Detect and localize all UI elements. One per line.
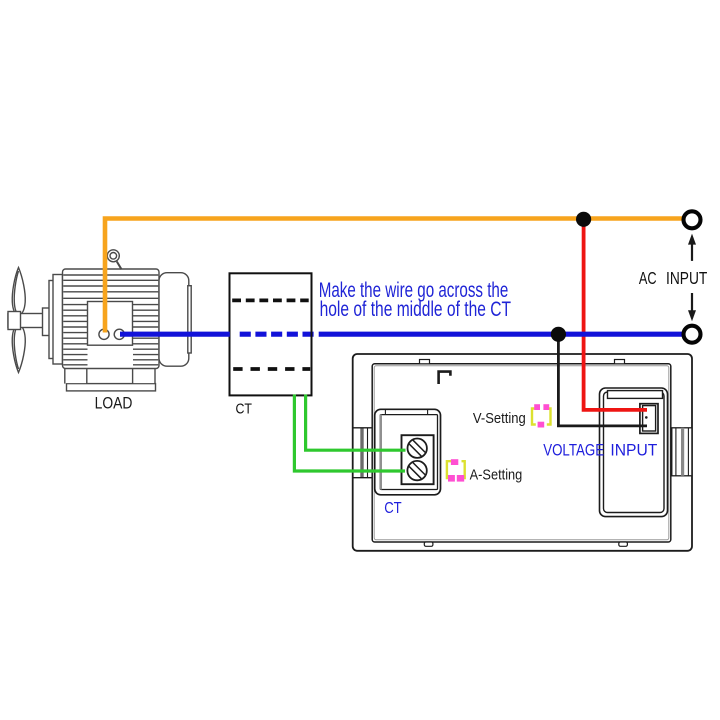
meter face plate	[372, 364, 671, 542]
motor leg left	[66, 369, 155, 384]
CT window dashed top	[232, 298, 309, 302]
wire: green CT lead 2	[294, 395, 405, 472]
shaft	[8, 314, 47, 328]
wire: red voltage sense	[584, 220, 647, 410]
motor right rib column	[133, 305, 158, 365]
bearing step 1	[43, 308, 51, 336]
corner mark	[439, 372, 451, 384]
top clip tabs	[420, 360, 430, 364]
screw top	[408, 439, 427, 458]
motor terminal L	[99, 329, 109, 339]
svg-text:AC: AC	[639, 268, 657, 288]
motor body	[63, 269, 160, 369]
svg-text:VOLTAGE: VOLTAGE	[543, 441, 604, 460]
wire: blue AC neutral, motor to CT box	[120, 332, 230, 337]
wire: green CT lead 1	[306, 395, 406, 451]
motor M1 (LOAD)	[8, 250, 191, 391]
motor terminal N	[114, 329, 124, 339]
CT sensor box	[230, 273, 312, 395]
wire: blue dashed through CT window	[240, 332, 314, 337]
arrow down	[691, 293, 693, 311]
svg-text:hole of the middle of the CT: hole of the middle of the CT	[320, 297, 511, 321]
svg-text:CT: CT	[236, 401, 253, 418]
eyelet strut	[117, 262, 122, 270]
svg-text:A-Setting: A-Setting	[470, 466, 523, 483]
screw bottom	[407, 461, 426, 480]
motor leg right	[132, 369, 134, 384]
AC input terminal top	[684, 211, 701, 228]
eyelet ring	[107, 250, 119, 262]
svg-text:CT: CT	[384, 500, 402, 517]
meter panel body	[353, 354, 692, 551]
right mounting tab	[672, 428, 692, 476]
svg-text:INPUT: INPUT	[666, 268, 708, 288]
arrow up	[691, 244, 693, 261]
screw box	[402, 435, 434, 484]
A-Setting button icon	[447, 459, 465, 481]
CT terminal block	[375, 409, 441, 495]
wire: black voltage sense	[558, 335, 647, 426]
wire: orange AC line from terminal to motor	[105, 219, 683, 333]
motor base plate	[67, 384, 156, 391]
motor end plate	[188, 286, 191, 353]
V-Setting button icon	[532, 404, 551, 427]
wire: blue AC neutral, CT box to terminal	[319, 332, 683, 337]
propeller blade bottom	[12, 325, 25, 373]
voltage connector	[640, 404, 658, 434]
front step 2	[49, 281, 54, 359]
motor top ribs	[63, 275, 158, 298]
junction dot on orange wire	[576, 212, 591, 227]
junction dot on blue wire	[551, 327, 566, 342]
motor end cap	[159, 273, 189, 367]
motor terminal box	[88, 302, 133, 346]
bottom clip tabs	[424, 542, 433, 546]
voltage input housing	[600, 388, 668, 517]
motor left rib column	[63, 305, 87, 365]
propeller blade top	[12, 268, 25, 316]
svg-text:V-Setting: V-Setting	[473, 410, 526, 427]
hub clamp	[8, 312, 21, 330]
svg-text:LOAD: LOAD	[95, 394, 133, 413]
CT window dashed bottom	[233, 367, 310, 371]
housing top bar	[608, 391, 663, 399]
front end bell	[53, 275, 63, 365]
AC input terminal bottom	[684, 326, 701, 343]
left mounting tab	[353, 427, 372, 429]
svg-text:INPUT: INPUT	[610, 441, 657, 460]
